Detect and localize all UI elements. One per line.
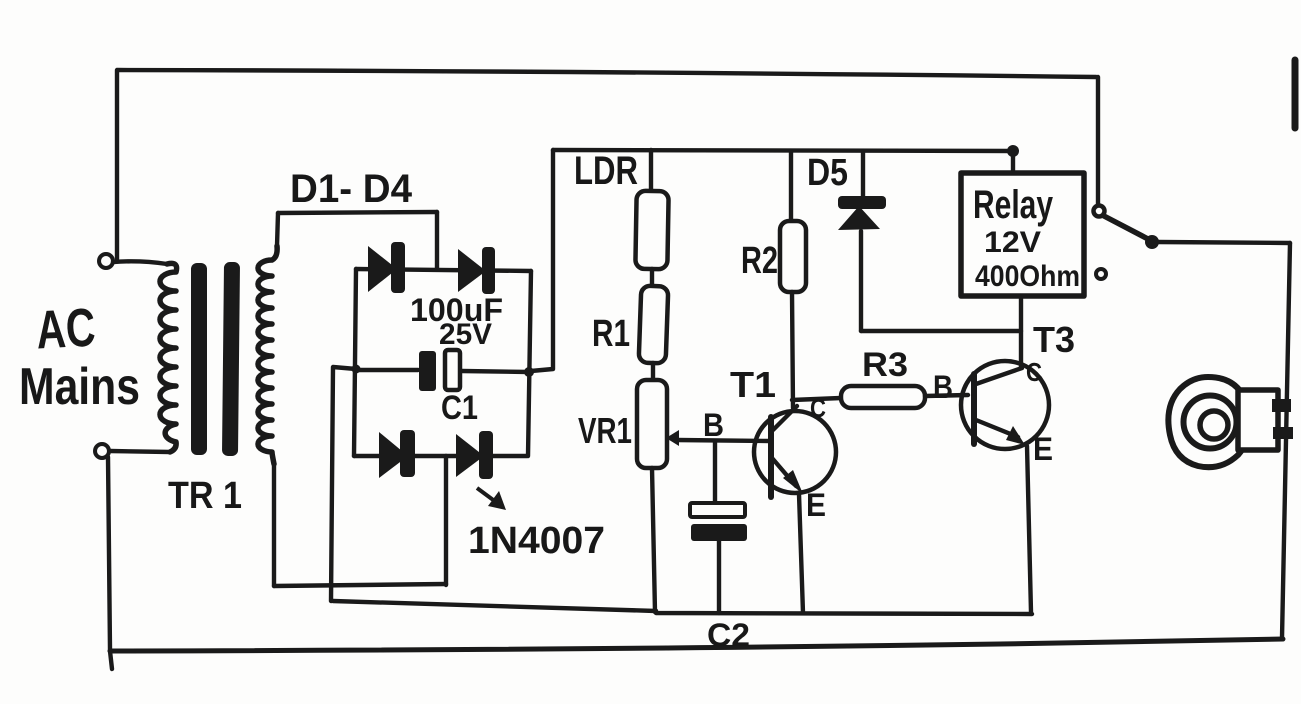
svg-text:T3: T3 <box>1033 319 1075 360</box>
svg-text:R1: R1 <box>592 313 630 355</box>
node switch pole (open) <box>1094 206 1105 217</box>
transistor T1 collector stroke <box>773 406 797 430</box>
wire bottom rail <box>110 639 1283 651</box>
wire relay top feed <box>1011 151 1015 173</box>
wire R2 drop from rail <box>789 151 793 221</box>
svg-text:400Ohm: 400Ohm <box>975 260 1080 293</box>
wire bridge box top <box>278 212 437 213</box>
svg-text:T1: T1 <box>730 364 776 405</box>
transistor T3 base bar <box>971 374 977 444</box>
wire C2 bottom to rail <box>717 541 721 613</box>
node relay feed junction <box>1007 145 1019 157</box>
bell outer ring <box>1168 377 1249 467</box>
wire bridge upper diode row <box>356 269 531 271</box>
resistor R3 body <box>841 386 925 408</box>
resistor R2 <box>780 221 806 292</box>
relay K1 box <box>961 173 1084 296</box>
wire wiper to T1 base <box>677 440 770 441</box>
wire switch output horizontal <box>1158 242 1290 243</box>
diode D5 cathode bar <box>838 196 886 209</box>
node bridge left cap junction <box>352 365 361 374</box>
wire LDR drop from rail <box>649 150 653 191</box>
diode D1 <box>368 242 405 293</box>
wire AC bottom terminal down <box>108 457 110 650</box>
wire R3 to T3 base <box>925 395 968 396</box>
svg-text:R3: R3 <box>862 346 908 384</box>
svg-text:AC: AC <box>35 297 97 360</box>
VR1 wiper arrow <box>666 430 679 446</box>
svg-text:C2: C2 <box>707 617 750 653</box>
bell middle ring <box>1184 396 1237 449</box>
diode D2 <box>458 247 495 294</box>
capacitor C2 top plate <box>690 503 745 517</box>
potentiometer VR1 body <box>637 380 667 468</box>
wire primary bottom to terminal <box>110 451 170 452</box>
wire capacitor row right <box>462 371 529 372</box>
wire bridge bottom line <box>274 584 446 586</box>
node bridge + junction <box>524 367 534 377</box>
switch S1 arm <box>1104 216 1148 239</box>
wire T1 collector to R3 node <box>792 398 841 400</box>
wire bridge right vertical <box>528 271 531 456</box>
transistor T3 collector stroke <box>976 368 1022 384</box>
wire D5 to relay bottom node <box>861 329 1021 333</box>
node switch throw (filled) <box>1145 235 1159 249</box>
wire right side vertical <box>1282 243 1290 638</box>
wire bridge lower diode row <box>354 454 527 458</box>
diode D3 <box>379 430 415 478</box>
bell terminal stub top <box>1272 399 1291 412</box>
wire VR1 bottom to rail <box>652 468 655 612</box>
svg-text:C: C <box>1026 357 1042 387</box>
page edge artifact line <box>1292 60 1299 128</box>
wire DC top rail <box>553 150 1014 151</box>
svg-text:12V: 12V <box>984 226 1041 259</box>
svg-text:Relay: Relay <box>973 183 1054 227</box>
svg-text:VR1: VR1 <box>578 410 632 451</box>
wire R2 to T1 collector node <box>792 292 793 408</box>
diode D4 <box>456 431 493 479</box>
svg-text:E: E <box>1033 431 1053 467</box>
wire DC plus riser to top rail <box>531 150 553 371</box>
wire minus branch to lower-left <box>331 367 356 601</box>
svg-text:B: B <box>933 369 953 405</box>
transistor T1 emitter arrowhead <box>783 470 803 494</box>
node AC top terminal <box>99 254 113 268</box>
wire terminal to primary top <box>113 261 167 264</box>
capacitor C1 right plate <box>445 350 460 390</box>
annotation arrow to diodes <box>477 488 506 510</box>
capacitor C2 bottom plate <box>691 524 747 541</box>
wire relay bottom to T3 collector <box>1019 296 1023 368</box>
svg-text:E: E <box>806 487 826 523</box>
wire bridge box right drop <box>435 212 439 268</box>
wire secondary top to bridge corner <box>277 213 278 246</box>
bell housing rectangle <box>1238 390 1278 450</box>
transistor T3 emitter arrowhead <box>1006 426 1025 445</box>
wire top AC rail <box>117 70 1096 77</box>
svg-text:Mains: Mains <box>19 358 140 416</box>
transistor T3 emitter stroke <box>976 420 1018 437</box>
wire T1 emitter to rail <box>799 494 803 613</box>
wire bridge left vertical <box>354 269 356 456</box>
bell inner ring <box>1200 411 1228 439</box>
wire common emitter rail <box>333 601 1032 614</box>
transistor T1 base bar <box>768 417 774 497</box>
wire bridge bottom drop <box>444 456 448 585</box>
node AC bottom terminal <box>95 444 109 458</box>
transistor T1 body <box>754 411 836 493</box>
wire secondary bottom down <box>272 464 276 586</box>
transistor T1 emitter stroke <box>772 458 796 486</box>
wire LDR to R1 <box>650 269 654 287</box>
resistor R1 <box>639 286 669 364</box>
transformer core bar right <box>222 262 240 456</box>
svg-text:LDR: LDR <box>574 149 638 193</box>
svg-text:D5: D5 <box>807 152 848 194</box>
capacitor C1 left plate <box>419 351 436 391</box>
svg-text:D1- D4: D1- D4 <box>290 167 413 211</box>
diode D5 triangle <box>838 206 880 230</box>
transformer core bar left <box>191 263 207 455</box>
wire switch top feed <box>1096 77 1100 205</box>
svg-text:R2: R2 <box>741 240 778 282</box>
wire left vertical from top terminal <box>115 71 119 259</box>
svg-text:B: B <box>703 407 724 443</box>
wire D5 drop from rail <box>861 151 865 198</box>
svg-text:C: C <box>810 393 826 423</box>
svg-text:C1: C1 <box>441 389 478 427</box>
wire R1 to VR1 <box>651 363 655 381</box>
LDR body <box>635 191 668 270</box>
transformer TR1 primary winding <box>160 263 177 452</box>
wire overshoot tick bottom-left <box>110 651 112 669</box>
transistor T3 body <box>961 361 1049 449</box>
svg-text:1N4007: 1N4007 <box>468 520 605 562</box>
svg-text:TR 1: TR 1 <box>168 475 242 517</box>
wire capacitor row left <box>356 368 418 372</box>
transformer TR1 secondary winding <box>258 246 277 464</box>
bell terminal stub bottom <box>1273 427 1293 439</box>
svg-text:25V: 25V <box>439 318 492 351</box>
wire D5 anode down <box>859 231 863 331</box>
wire T3 emitter to rail <box>1027 446 1031 612</box>
wire C2 top branch <box>713 441 717 503</box>
node spare contact (open) <box>1096 269 1106 279</box>
